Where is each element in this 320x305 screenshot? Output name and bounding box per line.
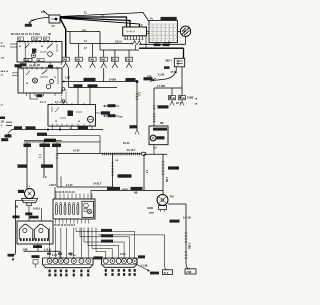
svg-text:1/15.A: 1/15.A <box>115 41 122 44</box>
svg-text:14 BLT: 14 BLT <box>93 182 102 186</box>
svg-text:15: 15 <box>84 11 87 15</box>
left edge dark label <box>0 117 5 120</box>
label 4/29 <box>144 77 153 80</box>
svg-text:4A 16.7: 4A 16.7 <box>127 148 137 152</box>
wire horizontal 2.5R/D <box>154 87 182 89</box>
label 3/50B3 hatched <box>44 139 56 142</box>
arrow left end of bus <box>62 80 64 82</box>
wire horizontal y50 <box>100 49 139 51</box>
small component left of bar1 <box>32 255 40 258</box>
left edge dash 2 <box>6 125 12 127</box>
svg-text:14B: 14B <box>89 57 94 61</box>
shielded cable comb <box>102 153 141 155</box>
label BAB dark <box>13 216 20 219</box>
label 24B dark <box>1 138 8 141</box>
svg-text:4 1: 4 1 <box>1 42 5 45</box>
splice connector 14B at x=92.5 <box>92 44 94 58</box>
svg-text:31 2 4: 31 2 4 <box>70 254 76 257</box>
lamp socket <box>159 206 167 210</box>
svg-text:4/4B: 4/4B <box>23 248 28 251</box>
svg-text:1B: 1B <box>195 104 198 106</box>
wire vertical x44 <box>43 147 45 176</box>
relay output wire <box>175 67 177 71</box>
wire bus y129 <box>12 129 103 131</box>
bar1 terminal 1 <box>47 259 52 264</box>
lamp filament <box>159 197 166 203</box>
wire vertical x112 <box>112 154 114 187</box>
connector BLA <box>163 270 173 275</box>
svg-text:1 W: 1 W <box>115 160 119 162</box>
svg-text:21.5B: 21.5B <box>158 74 165 77</box>
CU inner bottom ticks <box>52 124 54 126</box>
x137 ticks <box>136 93 139 95</box>
svg-text:888 Y: 888 Y <box>166 60 173 63</box>
CU internals <box>51 107 53 113</box>
svg-text:15: 15 <box>55 121 57 123</box>
bar2 terminal 1 <box>103 259 108 264</box>
B11 lamp circle <box>150 135 156 141</box>
junction <box>47 129 49 131</box>
bar2 lower pins <box>105 269 107 272</box>
connector box AC (C1) <box>123 27 147 36</box>
svg-text:1/52: 1/52 <box>119 117 124 119</box>
ground arrow <box>12 258 14 261</box>
wire bus y187 <box>57 186 113 188</box>
wire down from splice to horiz bus <box>68 68 70 88</box>
label BBB dark <box>164 66 170 69</box>
junction 2 <box>59 129 61 131</box>
RB1 contact circle 2 <box>48 52 53 57</box>
tick x58 <box>56 154 59 156</box>
fusebox bottom pin stubs <box>55 219 57 224</box>
label 2/81.5B <box>118 174 132 177</box>
bar2 terminal 6 <box>132 259 137 264</box>
svg-text:24 B.4: 24 B.4 <box>33 208 41 211</box>
bar1 terminal 7 <box>86 259 91 264</box>
svg-text:2/4B: 2/4B <box>147 75 152 78</box>
fusebox relay sub-box <box>82 201 94 217</box>
label 34/15B <box>158 105 169 108</box>
connector AC Y splices <box>134 39 136 41</box>
svg-text:30: 30 <box>78 121 80 123</box>
wire vertical x154 to unit B11 <box>153 88 155 126</box>
wire lamp to right <box>168 203 186 205</box>
bar2 diagonal arrow wire <box>137 265 149 271</box>
bar2 terminal 4 <box>122 259 127 264</box>
svg-text:4B: 4B <box>48 33 51 36</box>
label 23B <box>25 24 32 27</box>
label 20B dark <box>36 94 42 97</box>
label 2/50B row2 <box>37 133 47 136</box>
svg-text:4B: 4B <box>172 97 175 100</box>
wires fusebox to bar1 <box>49 228 51 258</box>
splice connector 14B at x=78.7 <box>78 44 80 58</box>
wire from AC splice down <box>135 45 137 50</box>
svg-text:2.5BL: 2.5BL <box>188 243 191 250</box>
RB1 left lead wires <box>10 43 17 45</box>
RB2 left lead wires <box>12 72 18 74</box>
CU right label 1/4B <box>96 112 102 114</box>
x163 tick pairs <box>162 161 165 163</box>
wire bus y135 <box>37 135 100 137</box>
bar1 lower pins <box>49 270 51 273</box>
svg-text:1/40A: 1/40A <box>109 77 116 81</box>
ignition switch inner marks <box>182 28 189 35</box>
wire fan line 4 thick <box>60 18 140 27</box>
x112 tick pairs <box>111 162 114 164</box>
label 11.88 <box>130 125 138 128</box>
wire vertical x163 into lamp <box>162 154 164 194</box>
label NPT dark <box>138 255 145 258</box>
wire fan line 3 to connector box <box>60 18 130 28</box>
bar1 terminal 4 <box>64 259 69 264</box>
svg-text:4: 4 <box>1 125 3 128</box>
svg-text:15A: 15A <box>82 29 86 32</box>
arrow lead 4/88 row1 <box>104 105 119 107</box>
label 1/4B <box>14 126 22 129</box>
bar2 terminal 5 <box>127 259 132 264</box>
RB1 coil dark square <box>32 49 36 53</box>
connector bar 1 <box>43 258 93 268</box>
relay K888 <box>174 58 184 67</box>
label 20 dark <box>48 65 53 68</box>
label 4A30/4 dark 2 <box>101 240 113 243</box>
RB2 top pin stubs <box>21 67 23 69</box>
svg-text:y—y—y: y—y—y <box>127 31 136 33</box>
wire vertical x144 <box>143 154 145 190</box>
wire coil left <box>15 200 24 202</box>
connector bar 2 <box>102 258 137 267</box>
Y splice bottom of x137 <box>135 130 137 135</box>
wire B11 down <box>153 145 155 155</box>
label 20/8B15 <box>107 187 120 190</box>
table cell marks <box>151 24 154 27</box>
label GEN dark <box>15 64 22 67</box>
svg-text:2.5 R/D: 2.5 R/D <box>157 85 165 88</box>
splice connector 14B at x=65.7 <box>62 57 69 61</box>
RB1 internal switch elements <box>24 42 26 63</box>
wire bus y87 <box>69 87 118 89</box>
svg-text:34 34: 34 34 <box>123 141 130 145</box>
coil inner marks <box>28 192 32 196</box>
label 23C3B <box>170 220 180 223</box>
svg-text:9C 4: 9C 4 <box>176 102 182 105</box>
svg-text:1/4B: 1/4B <box>25 59 30 62</box>
coil stem <box>27 203 32 206</box>
wire into fusebox <box>90 191 92 200</box>
wire bus y154 <box>144 153 167 155</box>
table dark header <box>161 17 177 20</box>
CU bottom pin stubs <box>52 126 54 129</box>
wire down to splice T1 <box>171 88 173 96</box>
label 6C9 <box>20 63 27 66</box>
wire bus y251 <box>24 250 60 252</box>
svg-text:B/4B: B/4B <box>149 212 154 215</box>
wire RB2 bottom jog <box>30 93 38 99</box>
RB2 contact circle <box>49 79 53 83</box>
svg-text:1.5B: 1.5B <box>165 177 168 182</box>
svg-text:34 4B: 34 4B <box>29 64 36 68</box>
control unit B11 <box>149 126 168 145</box>
connector AC pins <box>124 36 126 39</box>
wire into fusebox left <box>54 187 56 199</box>
svg-text:1.5: 1.5 <box>145 170 147 174</box>
wire bus y81 to junction <box>62 81 137 83</box>
wire vertical x15 ground run <box>14 201 16 254</box>
bar1 terminal 2 <box>53 259 58 264</box>
CU top pin stubs <box>51 103 53 105</box>
fusebox top pin stubs <box>55 194 57 200</box>
label 18B dark <box>18 190 24 193</box>
x154 tick pairs <box>153 105 156 107</box>
coil base trapezoid <box>22 199 38 203</box>
distributor hatched bar <box>20 238 22 241</box>
RB2 bottom pin stubs <box>25 93 27 96</box>
svg-text:30 30 15 15 31 4 2: 30 30 15 15 31 4 2 <box>55 191 75 194</box>
svg-text:14: 14 <box>84 39 87 43</box>
svg-text:30 30 15 15 31 31 2: 30 30 15 15 31 31 2 <box>54 224 76 227</box>
svg-text:14B: 14B <box>112 57 117 61</box>
splice connector 14B at x=114.9 <box>114 50 116 57</box>
svg-text:27: 27 <box>52 24 56 28</box>
svg-text:NB: NB <box>134 191 138 194</box>
svg-text:2 1: 2 1 <box>1 105 5 107</box>
label 11/8B dark <box>157 136 165 139</box>
svg-text:31: 31 <box>1 75 4 77</box>
splice connector 14B at x=103.7 <box>103 50 105 57</box>
svg-text:14B: 14B <box>101 57 106 61</box>
bar1 terminal 5 <box>71 259 76 264</box>
wire into CU pin 2 <box>89 88 91 105</box>
wire double line top <box>24 139 62 141</box>
bar1 terminal 6 <box>79 259 84 264</box>
splice connector 14B at x=129 <box>128 50 130 57</box>
svg-text:4B: 4B <box>37 64 40 67</box>
splice box T2 <box>179 96 186 100</box>
svg-text:1/8: 1/8 <box>1 121 5 124</box>
svg-text:31/8B: 31/8B <box>187 97 194 100</box>
ground lead arrow 31B <box>9 130 13 133</box>
wire curve 21.5B with arrow <box>153 71 176 81</box>
RB1 switch arm <box>47 44 53 49</box>
svg-text:2/4B: 2/4B <box>187 271 192 274</box>
svg-text:49: 49 <box>26 82 28 85</box>
wire into ground connector 2/4B <box>186 263 190 270</box>
svg-text:31: 31 <box>54 77 56 79</box>
wire switch down <box>185 37 187 45</box>
RB1 top pin stubs <box>19 40 21 41</box>
ignition coil circle <box>25 189 35 199</box>
crossing feeders to bar2 <box>76 228 135 258</box>
tick marks on x40 <box>39 154 42 156</box>
svg-text:86: 86 <box>41 46 43 48</box>
label 74BB dark 1 <box>25 213 32 216</box>
label 74BB dark 2 <box>30 216 39 219</box>
distributor tent 2 <box>34 224 48 239</box>
hanging connector labels row <box>26 142 28 144</box>
fuse F27 element dot <box>55 18 58 21</box>
wire vertical x61 short <box>60 177 62 188</box>
distributor tent 1 <box>19 224 33 239</box>
svg-text:AC: AC <box>139 23 143 27</box>
svg-text:1 R: 1 R <box>43 175 47 179</box>
wire vertical x100 <box>99 32 101 51</box>
wire double line bottom <box>24 141 100 143</box>
svg-text:2 1 4: 2 1 4 <box>40 100 46 104</box>
relay box RB2 (turn signal flasher) <box>18 68 62 93</box>
table left stub wires <box>147 31 150 33</box>
junction node <box>136 80 139 83</box>
wire vertical x57 <box>56 147 58 187</box>
svg-text:4B: 4B <box>182 97 185 100</box>
label 2/31B <box>168 166 179 169</box>
fuse F27 box <box>49 15 60 23</box>
table grid lines <box>152 24 154 43</box>
svg-text:3B: 3B <box>160 121 164 125</box>
RB2 motor circle <box>33 78 38 83</box>
central control unit CU <box>48 105 96 127</box>
wire bus y190 to warning lamp <box>91 190 163 192</box>
RB2 switch arm <box>42 70 47 74</box>
RB2 contact circle 2 <box>46 84 51 89</box>
svg-text:1 (4.2): 1 (4.2) <box>44 249 51 252</box>
svg-text:1 W: 1 W <box>1 58 5 60</box>
RB2 internal elements <box>23 68 25 93</box>
wire vertical x137 <box>136 82 138 130</box>
CU dark square <box>68 111 74 117</box>
label 2/4B2 dark <box>33 245 42 248</box>
wire horizontal y43 <box>70 43 133 45</box>
fuse box <box>53 199 95 219</box>
svg-text:A 30: A 30 <box>1 45 6 48</box>
label 2/50B.13 <box>41 164 53 167</box>
ground connector 2/4B <box>185 269 196 274</box>
svg-text:B/4B: B/4B <box>148 207 154 210</box>
label 4A30/4 dark <box>101 234 113 237</box>
svg-text:14B: 14B <box>63 57 68 61</box>
label 2/50B <box>78 126 88 129</box>
ignition switch symbol <box>180 26 190 36</box>
wire 23B with arrow <box>30 18 49 22</box>
wire to shielded section <box>57 153 102 155</box>
label 20/8B45 <box>131 187 143 190</box>
label 31B dark <box>5 135 12 138</box>
feeder to BLA connector <box>98 235 167 270</box>
wire vertical x186 down <box>185 204 187 263</box>
fuse elements <box>56 205 58 215</box>
wire coil stem to distributor <box>28 205 30 221</box>
wire fan line 5 down to splice row <box>60 18 66 57</box>
svg-text:22B: 22B <box>31 20 35 22</box>
relay internal contacts <box>176 60 182 62</box>
B11 dark header <box>153 128 167 131</box>
svg-text:A4 A 30: A4 A 30 <box>1 70 9 73</box>
wire down to relay <box>183 48 185 58</box>
warning lamp <box>157 195 168 206</box>
label 1/4B8 <box>74 84 83 87</box>
dashed sensor element <box>62 90 67 102</box>
wire down from splice x104 <box>103 68 105 82</box>
svg-text:1A: 1A <box>195 98 198 101</box>
svg-text:14 4B: 14 4B <box>33 38 39 41</box>
splice box T1 <box>169 96 176 100</box>
svg-text:30: 30 <box>19 46 21 48</box>
bar1 terminal 3 <box>58 259 63 264</box>
svg-text:4 BLT: 4 BLT <box>49 183 56 187</box>
svg-text:1.5R: 1.5R <box>65 77 70 80</box>
left edge dash <box>6 121 12 123</box>
RB2 inner pin ticks <box>21 68 23 70</box>
RB1 bottom pin stubs <box>22 62 24 65</box>
label 3/81.2 <box>18 164 28 167</box>
svg-text:14B: 14B <box>126 57 131 61</box>
label 31B dark <box>8 254 15 257</box>
bar2 terminal 2 <box>110 259 115 264</box>
wire into distributor right <box>41 208 43 221</box>
wire vertical x27 to ignition coil <box>26 147 28 189</box>
svg-text:14 BLT: 14 BLT <box>122 188 130 191</box>
table bottom labels <box>154 44 161 47</box>
relay box RB1 (hazard flasher) <box>17 42 62 63</box>
tick x58b <box>56 157 59 159</box>
RB1 inner pin ticks <box>19 42 21 44</box>
svg-text:15A: 15A <box>41 11 46 14</box>
fuse/relay table <box>149 21 178 43</box>
label NECK dark <box>94 256 103 259</box>
wire fan line 1 to fuse table <box>60 13 149 22</box>
arrow lead 4/88 row2 <box>104 115 119 117</box>
svg-text:2 4 2: 2 4 2 <box>52 254 58 257</box>
svg-text:14 24: 14 24 <box>66 183 73 187</box>
label 2/4B2 dark <box>150 272 159 275</box>
wire horizontal y32 <box>65 31 100 33</box>
wire fan line 2 to connector box <box>60 17 127 27</box>
label 2/50B dark <box>101 229 112 232</box>
RB1 inner label <box>24 58 32 61</box>
wire into CU pin <box>77 88 79 105</box>
wire relay down to splice box <box>181 67 183 96</box>
wire to fuse F27 from upper left <box>43 11 49 16</box>
svg-text:+ +: + + <box>26 184 30 188</box>
distributor box <box>17 221 53 244</box>
thick wire y48 right <box>139 47 184 49</box>
svg-text:B4 31A 34 44 41 4 33A: B4 31A 34 44 41 4 33A <box>11 32 40 36</box>
svg-text:BLA: BLA <box>164 271 169 274</box>
svg-text:743: 743 <box>170 195 175 199</box>
table stub down <box>155 43 157 44</box>
RB1 pin labels boxed <box>18 37 24 40</box>
label 4/15B <box>88 84 98 87</box>
svg-text:1.5: 1.5 <box>153 145 157 149</box>
bar2 terminal 3 <box>116 259 121 264</box>
wire distributor down <box>37 244 39 251</box>
svg-text:4 1.5B: 4 1.5B <box>141 265 148 268</box>
wire table to switch <box>178 31 181 33</box>
wire from AC right down <box>145 36 147 48</box>
x186 tick pairs <box>185 232 188 234</box>
wire vertical x70 <box>69 32 71 44</box>
label 3/50B <box>26 126 36 129</box>
wire x100 down to shield <box>99 136 101 154</box>
svg-text:14 34: 14 34 <box>73 149 80 153</box>
svg-text:14B: 14B <box>76 57 81 61</box>
label 3/50B hatched <box>84 78 96 81</box>
svg-text:1A 1B: 1A 1B <box>183 216 191 220</box>
svg-text:2 3 1: 2 3 1 <box>120 252 126 256</box>
wire bus y44 right <box>139 43 186 45</box>
RB1 contact circle <box>31 54 35 58</box>
svg-text:17: 17 <box>84 46 87 50</box>
